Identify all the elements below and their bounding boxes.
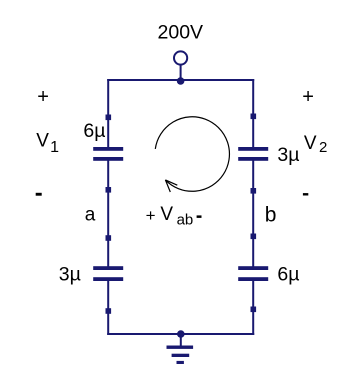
wire right upper bbox=[252, 79, 254, 148]
svg-text:+: + bbox=[37, 86, 49, 108]
svg-text:6µ: 6µ bbox=[277, 263, 299, 285]
wire right lower bbox=[252, 281, 254, 336]
label minus right bbox=[303, 193, 308, 195]
terminal circle 200V source bbox=[174, 51, 187, 64]
svg-text:b: b bbox=[265, 203, 277, 226]
svg-text:+: + bbox=[146, 206, 156, 225]
svg-text:+: + bbox=[302, 86, 314, 108]
label Vab minus bbox=[197, 215, 202, 218]
svg-text:2: 2 bbox=[319, 139, 327, 156]
loop arrow head bbox=[165, 180, 177, 192]
svg-text:V: V bbox=[160, 204, 173, 225]
svg-text:ab: ab bbox=[177, 212, 194, 229]
ground bar 2 bbox=[172, 354, 190, 357]
ground bar 1 bbox=[167, 346, 194, 349]
loop arrow circle bbox=[155, 117, 229, 192]
wire bottom bbox=[107, 333, 254, 335]
svg-text:V: V bbox=[304, 133, 317, 154]
wire left middle bbox=[107, 160, 109, 267]
wire top bbox=[107, 79, 254, 81]
capacitor C4 6u right bottom bbox=[238, 234, 268, 313]
label minus left bbox=[36, 193, 42, 196]
wire left lower bbox=[107, 281, 109, 336]
wire terminal stub bbox=[180, 65, 182, 79]
ground junction dot bbox=[177, 330, 185, 338]
capacitor C3 3u right top bbox=[238, 114, 268, 194]
svg-text:3µ: 3µ bbox=[59, 264, 81, 286]
junction dot top bbox=[177, 77, 185, 85]
capacitor C2 3u left bottom bbox=[93, 235, 123, 314]
svg-text:3µ: 3µ bbox=[277, 144, 299, 166]
ground stem bbox=[180, 334, 182, 346]
capacitor C1 6u left top bbox=[93, 115, 123, 193]
svg-text:200V: 200V bbox=[158, 22, 204, 44]
svg-text:V: V bbox=[36, 131, 49, 152]
svg-text:6µ: 6µ bbox=[83, 120, 105, 142]
ground bar 3 bbox=[177, 361, 184, 364]
wire left upper bbox=[107, 79, 109, 148]
svg-text:1: 1 bbox=[50, 139, 59, 156]
wire right middle bbox=[252, 160, 254, 267]
svg-text:a: a bbox=[85, 204, 96, 225]
